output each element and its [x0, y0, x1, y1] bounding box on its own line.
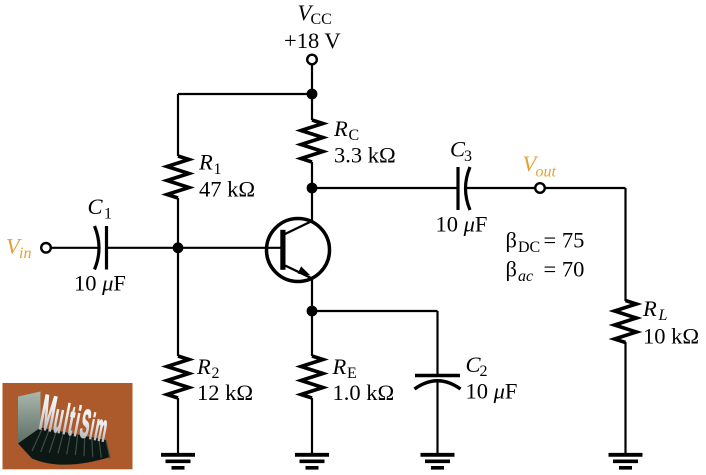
- svg-text:10 kΩ: 10 kΩ: [643, 324, 699, 349]
- svg-text:10 μF: 10 μF: [436, 211, 488, 236]
- svg-text:10 μF: 10 μF: [466, 379, 518, 404]
- resistor R1: [167, 156, 189, 198]
- wire emitter node to C2: [312, 310, 438, 312]
- svg-text:1: 1: [214, 161, 222, 178]
- Vin terminal circle: [41, 243, 51, 253]
- wire RL to ground: [624, 342, 626, 454]
- wire base node to transistor base: [178, 247, 281, 249]
- svg-text:R: R: [332, 354, 347, 379]
- wire transistor emitter to emitter node: [311, 278, 313, 311]
- wire RE to ground: [311, 398, 313, 454]
- wire emitter node to RE: [311, 311, 313, 356]
- ground (R2): [161, 455, 195, 468]
- svg-text:+18 V: +18 V: [284, 28, 341, 53]
- Multisim logo: [3, 383, 133, 469]
- wire RC to collector node: [311, 162, 313, 188]
- wire C2 to ground: [436, 380, 438, 454]
- transistor Q1 (NPN): [267, 219, 330, 282]
- wire collector node to transistor collector: [311, 188, 313, 222]
- svg-text:1.0 kΩ: 1.0 kΩ: [333, 380, 395, 405]
- svg-text:β: β: [506, 257, 517, 282]
- svg-text:L: L: [658, 307, 668, 324]
- svg-text:CC: CC: [311, 11, 332, 28]
- wire top junction to R1 branch: [178, 93, 312, 95]
- svg-text:3: 3: [464, 148, 472, 165]
- wire C3 to Vout corner: [464, 187, 626, 189]
- resistor RE: [301, 356, 323, 398]
- svg-text:3.3 kΩ: 3.3 kΩ: [334, 142, 396, 167]
- svg-text:10 μF: 10 μF: [74, 271, 126, 296]
- capacitor C3: [458, 167, 470, 210]
- wire R1 to base node: [177, 198, 179, 248]
- svg-text:C: C: [88, 194, 104, 219]
- resistor R2: [167, 356, 189, 398]
- svg-text:= 75: = 75: [544, 228, 585, 253]
- svg-text:1: 1: [104, 205, 112, 222]
- wire collector node to C3: [312, 187, 458, 189]
- node base junction: [173, 242, 184, 253]
- wire VCC terminal to top junction: [311, 64, 313, 94]
- wire input terminal to C1: [46, 247, 98, 249]
- svg-text:47 kΩ: 47 kΩ: [199, 177, 255, 202]
- svg-text:β: β: [506, 228, 517, 253]
- wire down to RL: [624, 188, 626, 301]
- ground (RE): [295, 455, 329, 468]
- wire down to R1: [177, 94, 179, 156]
- Vout terminal circle: [535, 183, 545, 193]
- wire R2 to ground: [177, 398, 179, 454]
- ground (RL): [609, 455, 643, 468]
- svg-text:12 kΩ: 12 kΩ: [197, 380, 253, 405]
- resistor RL: [615, 301, 637, 343]
- svg-text:= 70: = 70: [544, 257, 585, 282]
- svg-text:R: R: [642, 296, 657, 321]
- wire C1 to base node: [107, 247, 179, 249]
- resistor RC: [301, 120, 323, 162]
- wire top junction to RC: [311, 94, 313, 120]
- svg-text:2: 2: [480, 363, 488, 380]
- svg-text:DC: DC: [518, 239, 540, 256]
- VCC terminal circle: [307, 55, 317, 65]
- capacitor C1: [95, 226, 107, 270]
- wire base node down to R2: [177, 248, 179, 356]
- svg-text:in: in: [19, 245, 31, 262]
- svg-text:R: R: [333, 116, 348, 141]
- svg-text:R: R: [196, 354, 211, 379]
- node collector junction: [307, 183, 318, 194]
- node emitter junction: [307, 306, 318, 317]
- svg-text:out: out: [536, 163, 557, 180]
- svg-text:R: R: [198, 150, 213, 175]
- capacitor C2: [415, 376, 461, 390]
- svg-text:ac: ac: [518, 268, 533, 285]
- wire down to C2: [436, 311, 438, 374]
- ground (C2): [421, 455, 455, 468]
- node top junction (VCC rail): [307, 89, 318, 100]
